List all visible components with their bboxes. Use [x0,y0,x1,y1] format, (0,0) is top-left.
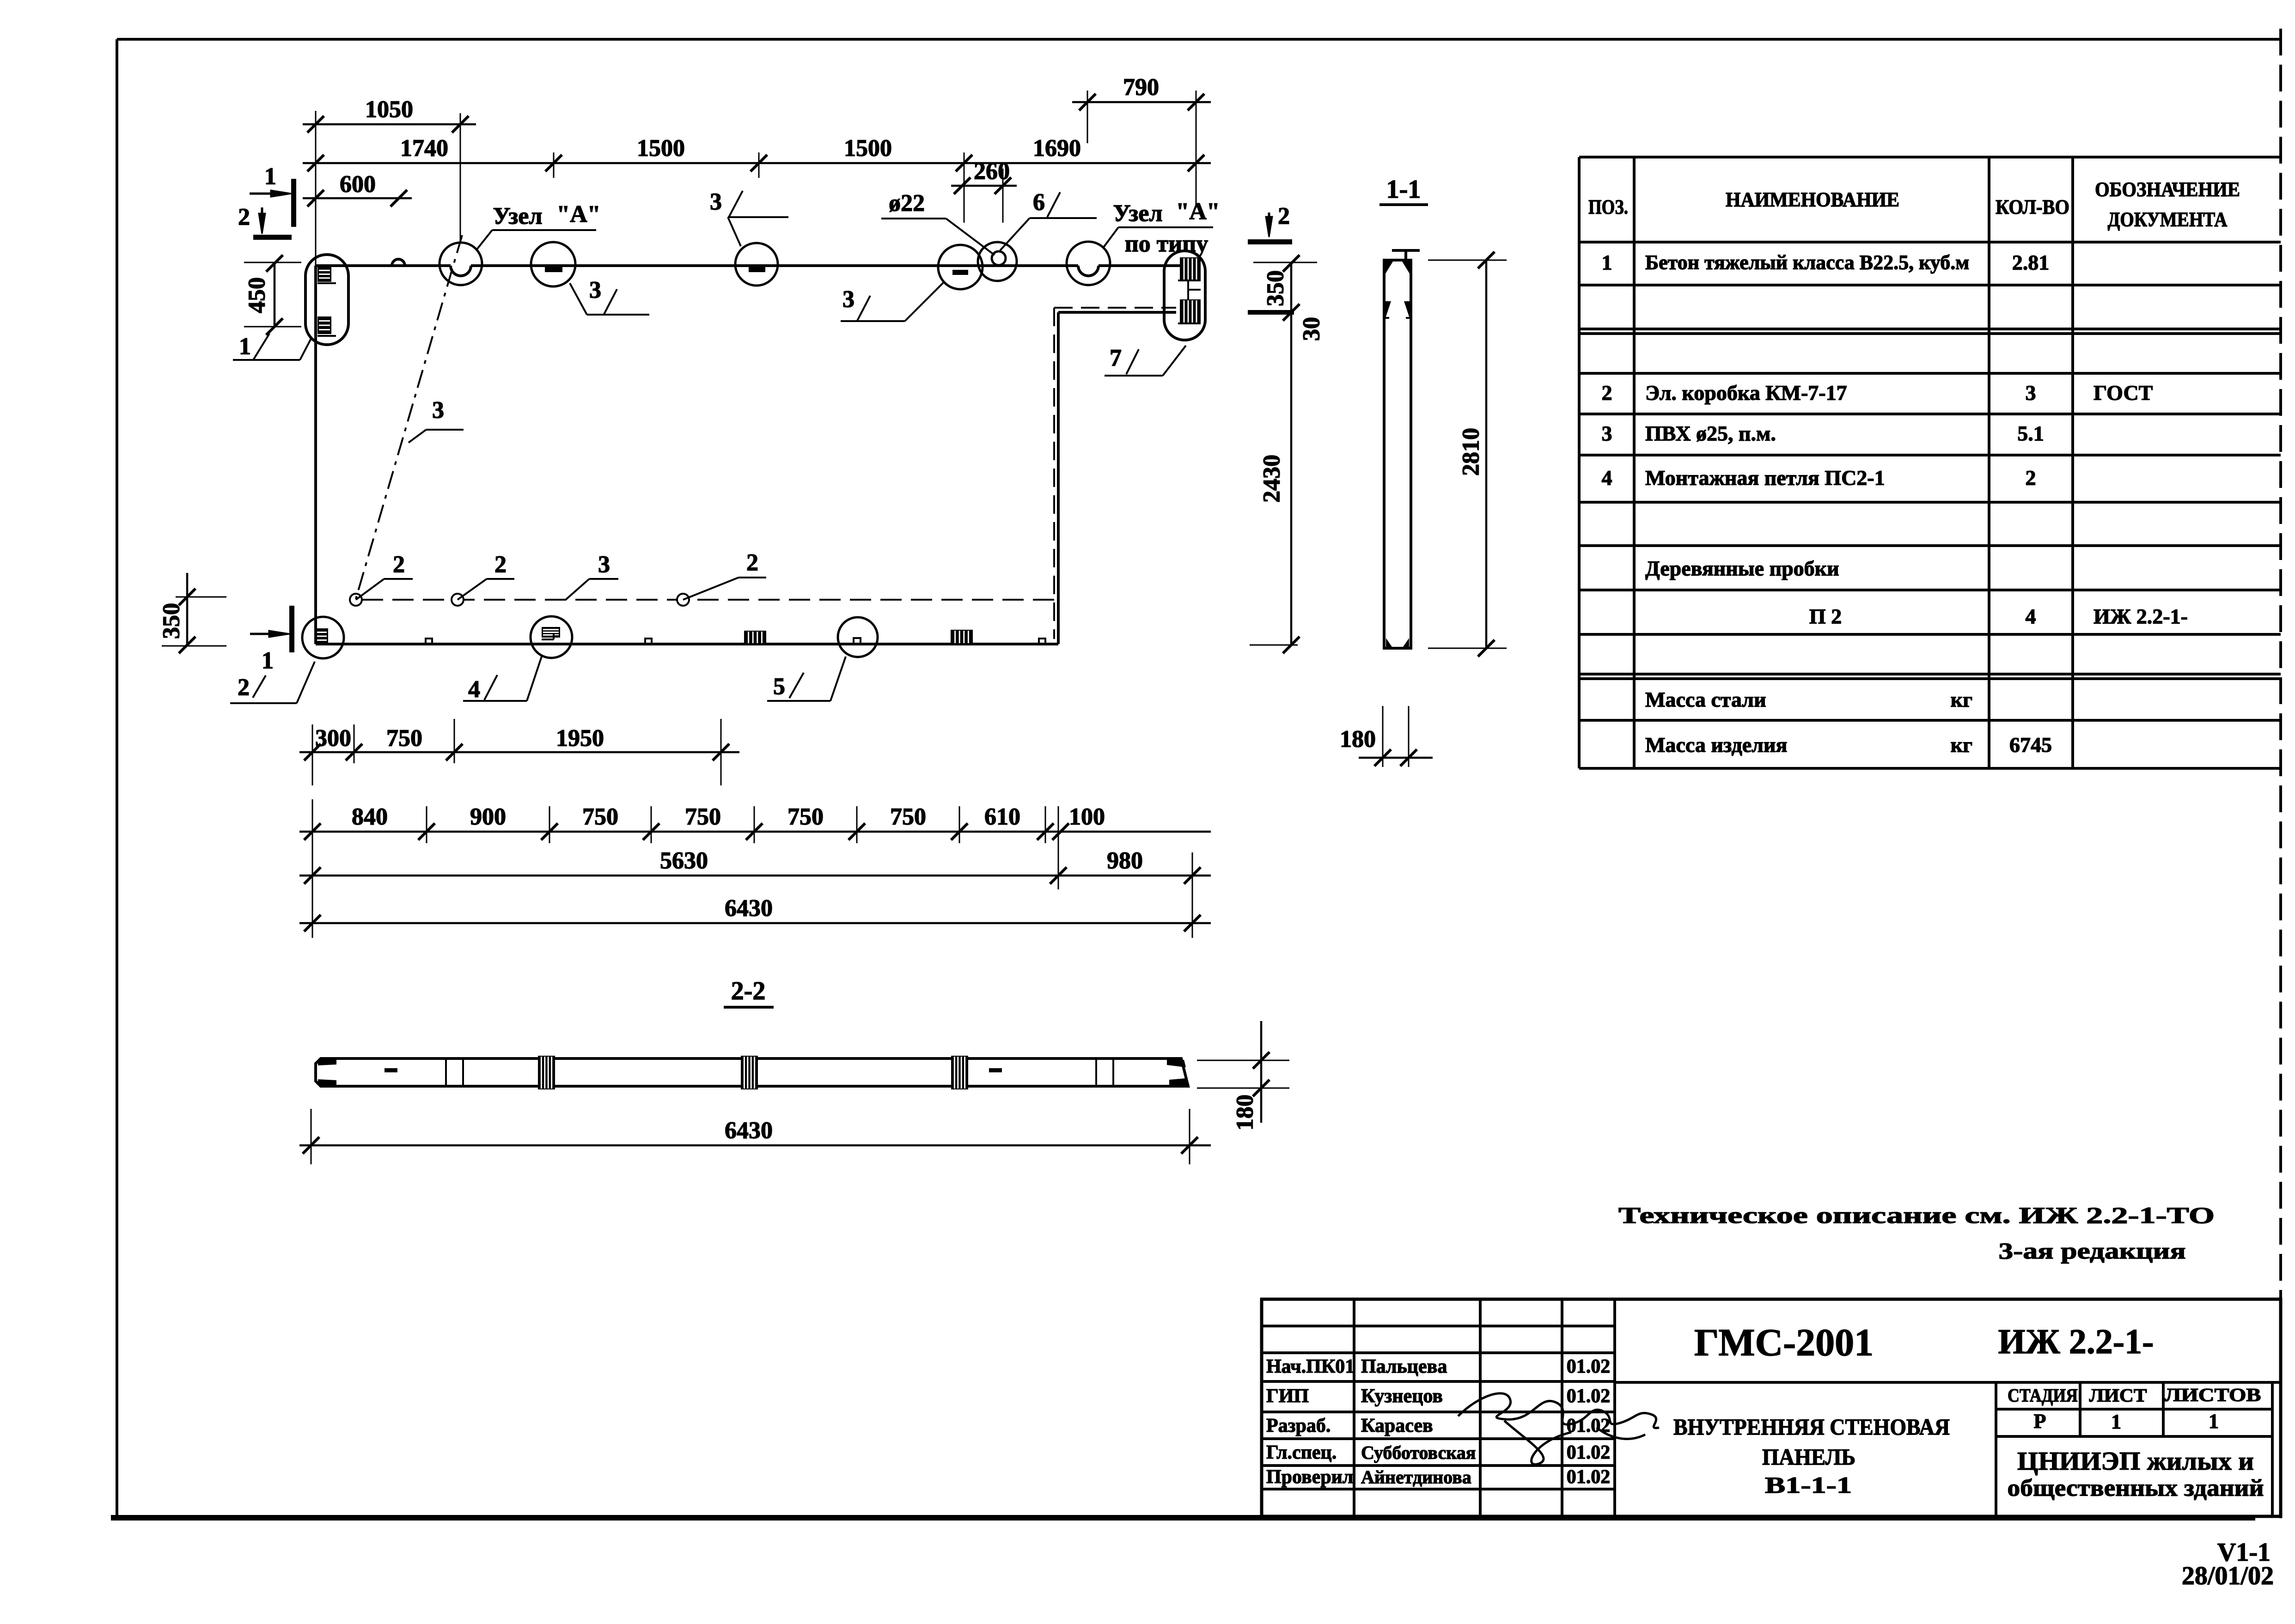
svg-text:3: 3 [2026,381,2036,405]
svg-text:1500: 1500 [637,135,685,162]
svg-text:ДОКУМЕНТА: ДОКУМЕНТА [2108,208,2228,231]
dash-dot riser line from node A to conduit node [356,235,462,599]
svg-text:2: 2 [494,552,507,578]
svg-text:Бетон тяжелый класса В22.5, ку: Бетон тяжелый класса В22.5, куб.м [1645,251,1969,274]
section 2-2 dash mark left [385,1068,397,1072]
svg-text:Деревянные пробки: Деревянные пробки [1645,557,1839,580]
svg-text:750: 750 [890,804,926,830]
conduit node circle at x990 [452,594,464,606]
svg-text:ГОСТ: ГОСТ [2094,381,2153,405]
svg-text:600: 600 [340,171,376,198]
svg-text:5630: 5630 [660,848,708,874]
title block band line under GMS-2001 [1615,1381,2281,1384]
svg-text:В1-1-1: В1-1-1 [1765,1472,1852,1498]
svg-text:6430: 6430 [725,1118,773,1144]
dashed conduit line (item 3) inside panel [362,599,1054,601]
svg-text:"А": "А" [1176,199,1220,225]
svg-text:750: 750 [386,725,422,752]
dim row 600 [303,197,412,200]
svg-text:1-1: 1-1 [1386,175,1421,204]
svg-text:ИЖ 2.2-1-: ИЖ 2.2-1- [2094,605,2188,628]
svg-text:ОБОЗНАЧЕНИЕ: ОБОЗНАЧЕНИЕ [2095,178,2240,201]
svg-text:01.02: 01.02 [1567,1386,1611,1407]
svg-text:Узел: Узел [1113,201,1162,227]
title block right section verticals [1995,1382,1997,1516]
left end electric box lower (hatched) [317,316,331,334]
svg-text:3: 3 [598,552,610,578]
svg-text:ПАНЕЛЬ: ПАНЕЛЬ [1762,1444,1856,1470]
svg-text:4: 4 [1602,466,1612,490]
label 3 leader for conduit line [566,579,589,600]
right panel end detail stadium outline [1164,251,1205,340]
svg-text:по типу: по типу [1125,231,1208,257]
section 1-1 top T mark [1392,249,1420,252]
right end electric box upper (hatched) [1180,257,1201,280]
panel plan right step hidden (dashed) edge [1053,308,1055,639]
bottom-left corner electric box (hatched) [316,628,328,644]
dim 2810 right of section 1-1 [1485,260,1488,648]
svg-text:кг: кг [1951,688,1972,712]
svg-text:Узел: Узел [493,203,542,230]
svg-text:350: 350 [1263,270,1289,306]
svg-text:3: 3 [1602,422,1612,445]
svg-text:1690: 1690 [1033,135,1081,162]
svg-text:1950: 1950 [556,725,604,752]
svg-text:2-2: 2-2 [731,977,766,1005]
dim 180 below section 1-1 [1359,757,1433,759]
svg-text:ЛИСТ: ЛИСТ [2089,1385,2147,1406]
left end electric box upper (hatched) [317,267,331,282]
svg-text:2: 2 [238,204,250,231]
label 2 leader for node x1478 [683,578,739,600]
panel plan bottom edge [316,643,1058,645]
section 2-2 left end corner marks [318,1060,336,1065]
panel plan left edge [314,266,317,644]
svg-text:28/01/02: 28/01/02 [2182,1562,2274,1590]
label 2 leader for node x770 [356,579,384,600]
node circle C1 (Uzel A) with recess cup [439,243,482,285]
svg-text:Айнетдинова: Айнетдинова [1361,1467,1471,1488]
svg-text:2: 2 [238,675,250,701]
small notch on bottom edge at x930 [426,639,432,644]
svg-text:Разраб.: Разраб. [1266,1415,1331,1436]
svg-text:1740: 1740 [400,135,448,162]
svg-text:П 2: П 2 [1809,605,1842,628]
sleeve circle C3 [735,243,778,286]
small notch in circle 5 [854,638,861,644]
svg-text:2: 2 [1278,203,1290,230]
small notch on bottom edge at x2255 [1039,639,1045,644]
sheet frame bottom border (thick) [111,1515,2255,1521]
extension lines below plan [312,799,313,938]
parts table vertical lines [1578,157,1581,768]
left panel end detail stadium outline [305,255,348,345]
parts table horizontal lines [1579,156,2281,158]
svg-text:Гл.спец.: Гл.спец. [1266,1442,1337,1463]
detail circle 4 on bottom edge [531,616,572,658]
title block STADIA rows [1996,1408,2272,1411]
svg-text:1500: 1500 [844,135,892,162]
svg-text:6745: 6745 [2009,733,2052,757]
label 3 for riser diagonal [409,430,426,443]
dim 6430 below section 2-2 [299,1144,1211,1147]
svg-text:260: 260 [974,158,1010,185]
small notch on bottom edge at x1404 [645,639,652,644]
svg-text:180: 180 [1232,1095,1258,1131]
svg-text:СТАДИЯ: СТАДИЯ [2008,1385,2078,1406]
svg-text:840: 840 [352,804,388,830]
svg-text:2430: 2430 [1259,455,1285,503]
sleeve circle C4 [938,245,983,289]
svg-text:1: 1 [264,164,276,190]
sheet frame top border [117,38,2281,41]
title block signature scrawl [1458,1393,1659,1465]
svg-text:2: 2 [746,550,758,576]
svg-text:01.02: 01.02 [1567,1442,1611,1463]
svg-text:790: 790 [1123,74,1159,101]
svg-text:Субботовская: Субботовская [1361,1442,1476,1463]
hatched conduit block on bottom edge at x2081 [951,630,973,644]
section 2-2 dash mark right [989,1068,1002,1072]
svg-text:1: 1 [2209,1410,2219,1433]
svg-text:750: 750 [787,804,824,830]
svg-text:2810: 2810 [1458,428,1484,476]
svg-text:ПОЗ.: ПОЗ. [1588,196,1628,219]
electric box in circle 4 (hatched) [542,627,560,638]
title block outer box [1262,1299,2281,1516]
semicircular bump on top edge at 600 mark [392,259,405,266]
dim row 1050 [303,123,476,126]
svg-text:Нач.ПК01: Нач.ПК01 [1266,1356,1355,1377]
svg-text:3: 3 [842,286,855,313]
section 1-1 body outline [1384,260,1411,648]
svg-text:4: 4 [468,676,480,703]
svg-text:2.81: 2.81 [2012,251,2050,274]
svg-text:3: 3 [432,397,444,424]
node circle C6 (Uzel A po tipu) with recess cup [1067,242,1110,285]
svg-text:3: 3 [710,189,722,215]
svg-text:1: 1 [2111,1411,2121,1433]
svg-text:450: 450 [244,277,270,313]
svg-text:Масса изделия: Масса изделия [1645,733,1787,757]
title block left sub-table rows [1262,1325,1615,1327]
svg-text:2: 2 [1602,381,1612,405]
sleeve circle C2 [531,242,575,286]
svg-text:1: 1 [239,334,251,360]
dim row 6430 (plan) [299,922,1211,925]
sheet frame left border [116,39,118,1518]
svg-text:ГИП: ГИП [1266,1386,1309,1407]
svg-text:ГМС-2001: ГМС-2001 [1694,1321,1874,1364]
svg-text:5: 5 [773,674,785,700]
svg-text:ПВХ ø25, п.м.: ПВХ ø25, п.м. [1645,422,1776,445]
svg-text:ЦНИИЭП жилых и: ЦНИИЭП жилых и [2017,1447,2254,1476]
section 1-1 top corner marks [1386,262,1393,274]
section 2-2 joint line pair left [445,1058,447,1086]
section 1-1 side notch marks [1386,301,1391,318]
bottom-left corner detail circle 2 [302,617,344,658]
svg-text:2: 2 [393,552,405,578]
svg-text:ИЖ 2.2-1-: ИЖ 2.2-1- [1998,1322,2154,1361]
section marker 1 bottom [289,606,294,652]
svg-text:100: 100 [1069,804,1105,830]
svg-text:общественных зданий: общественных зданий [2008,1475,2264,1502]
section 2-2 hatched block 3 [951,1056,968,1089]
detail circle 5 on bottom edge [838,617,878,657]
svg-text:610: 610 [984,804,1020,830]
svg-text:"А": "А" [556,201,600,228]
svg-text:7: 7 [1110,345,1122,371]
svg-text:01.02: 01.02 [1567,1356,1611,1377]
dim row 300-750-1950 [299,751,739,754]
section 2-2 hatched block 1 [538,1056,555,1089]
dim 180 right of section 2-2 [1260,1021,1263,1123]
svg-text:Пальцева: Пальцева [1361,1356,1447,1377]
svg-text:980: 980 [1107,848,1143,874]
svg-text:Эл. коробка КМ-7-17: Эл. коробка КМ-7-17 [1645,381,1847,405]
panel plan top edge [316,264,451,267]
section 2-2 right end corner marks [1167,1060,1186,1067]
title block signature column lines [1353,1299,1355,1516]
svg-text:3: 3 [589,277,601,304]
svg-text:КОЛ-ВО: КОЛ-ВО [1996,196,2069,219]
svg-text:ø22: ø22 [889,190,925,217]
svg-text:НАИМЕНОВАНИЕ: НАИМЕНОВАНИЕ [1726,189,1899,211]
svg-text:300: 300 [315,725,351,752]
sheet frame right border (dashed) [2279,29,2282,1518]
dim 450 left side [274,263,276,327]
svg-text:2: 2 [2026,466,2036,490]
svg-text:Карасев: Карасев [1361,1415,1433,1436]
svg-text:1050: 1050 [365,97,413,123]
section 2-2 joint line pair right [1095,1058,1097,1086]
svg-text:01.02: 01.02 [1567,1466,1611,1488]
svg-text:Монтажная петля ПС2-1: Монтажная петля ПС2-1 [1645,466,1885,490]
right end electric box lower (hatched) [1180,299,1201,323]
conduit node circle at x770 [350,594,362,606]
svg-text:6: 6 [1033,189,1045,216]
dim row 790 [1072,101,1211,103]
panel plan right step solid edge [1057,312,1060,644]
svg-text:Кузнецов: Кузнецов [1361,1386,1443,1407]
svg-text:750: 750 [582,804,618,830]
conduit node circle at x1478 [677,594,689,606]
section 2-2 hatched block 2 [741,1056,758,1089]
svg-text:Проверил: Проверил [1266,1466,1353,1488]
section 2-2 bar outline [316,1058,1188,1086]
svg-text:кг: кг [1951,733,1972,757]
svg-text:180: 180 [1340,726,1376,753]
svg-text:3-ая редакция: 3-ая редакция [1999,1238,2186,1264]
label 2 leader for node x990 [458,579,487,600]
svg-text:30: 30 [1299,317,1325,341]
section 1-1 bottom corner marks [1386,638,1392,647]
dim 350 lower left side [186,573,189,645]
hole circle C5 with o22 hole [978,242,1017,281]
thick 30-tick bar [1248,310,1294,315]
svg-text:6430: 6430 [725,895,773,922]
svg-text:1: 1 [1602,251,1612,274]
dim 350 right of plan [1290,263,1293,312]
svg-text:ЛИСТОВ: ЛИСТОВ [2165,1385,2261,1405]
svg-text:Техническое описание см. ИЖ 2: Техническое описание см. ИЖ 2.2-1-ТО [1618,1202,2215,1228]
svg-text:350: 350 [159,603,185,639]
dim row 1740-1500-1500-1690 [303,162,1211,164]
svg-text:1: 1 [262,648,274,674]
svg-text:900: 900 [470,804,506,830]
dim 2430 right of plan [1290,312,1293,645]
dim row 5630-980 [299,875,1211,877]
svg-text:4: 4 [2026,605,2036,628]
svg-text:Р: Р [2034,1410,2046,1433]
svg-text:750: 750 [685,804,721,830]
svg-text:Масса стали: Масса стали [1645,688,1766,712]
hatched conduit block on bottom edge at x1634 [744,631,766,644]
dim row 260 [951,185,1017,187]
extension lines above panel [315,111,317,266]
dim row 840-900-750-750-750-750-610-100 [299,831,1211,833]
svg-text:5.1: 5.1 [2017,422,2044,445]
svg-text:ВНУТРЕННЯЯ СТЕНОВАЯ: ВНУТРЕННЯЯ СТЕНОВАЯ [1673,1414,1950,1440]
